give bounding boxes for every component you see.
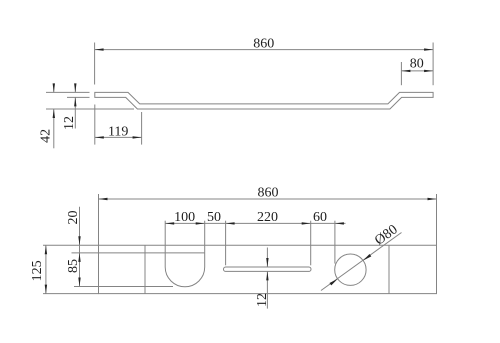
dimension 12 up arrow (top view) (74, 97, 76, 106)
dimension 220 right arrow (302, 222, 311, 224)
svg-text:12: 12 (255, 293, 270, 307)
dimension 860 (top view) right extension line (432, 43, 434, 86)
dimension 42 down arrow (53, 83, 55, 92)
svg-text:220: 220 (257, 210, 278, 225)
svg-text:Ø80: Ø80 (372, 222, 400, 248)
dimension 12 lower dim line segment (bottom view) (266, 271, 268, 308)
svg-text:100: 100 (174, 210, 195, 225)
dimension 860 (top view) left extension line (94, 43, 96, 85)
hole diameter lower arrow (330, 279, 338, 286)
svg-text:125: 125 (30, 260, 45, 281)
extension line at bar end underside (67, 96, 90, 98)
slot cutout (224, 267, 312, 271)
extension line at D-slot right (204, 221, 206, 253)
dimension 20 down arrow (78, 236, 80, 245)
dimension 80 (top view) left extension line (400, 62, 402, 85)
svg-text:860: 860 (258, 185, 279, 200)
dimension 12 upper dim line segment (top view) (74, 84, 76, 92)
end-tab bottom edge with extension (74, 286, 173, 288)
dimension 12 down arrow (bottom view) (266, 258, 268, 267)
extension line at slot right end (310, 221, 312, 266)
plate bottom edge extension (left) (43, 293, 99, 295)
dimension 80 (top view) right arrow (424, 70, 433, 72)
svg-text:20: 20 (66, 211, 81, 225)
svg-text:50: 50 (207, 210, 221, 225)
dimension 860 (top view) right arrow (424, 48, 433, 50)
hole diameter leader line (321, 233, 402, 291)
dimension 20 dim line (79, 207, 81, 287)
plate top edge extension (left) (43, 244, 99, 246)
plate outline (99, 245, 437, 293)
dimension 100 left arrow (165, 222, 174, 224)
hole diameter upper arrow (363, 254, 371, 261)
dimension 80 (top view) dim line (401, 70, 433, 72)
dimension 125 down arrow (45, 285, 47, 294)
dimension 220 left arrow (226, 222, 235, 224)
svg-text:119: 119 (108, 125, 128, 140)
hole diameter label (372, 222, 400, 248)
dimension 125 up arrow (45, 245, 47, 254)
dimension 12 up arrow (bottom view) (266, 271, 268, 280)
dimension 119 dim line (95, 136, 142, 138)
dimension 860 (top view) left arrow (95, 48, 104, 50)
dimension 860 (bottom view) right extension line (436, 194, 438, 245)
svg-text:85: 85 (66, 259, 81, 273)
extension line at bar bottom face (46, 108, 134, 110)
dimension 85 up arrow (78, 253, 80, 262)
right bend line (388, 245, 390, 293)
end-tab top edge with extension (72, 252, 205, 254)
dimension 80 (top view) left arrow (401, 70, 410, 72)
dimension 119 right extension line (141, 112, 143, 145)
svg-text:60: 60 (313, 210, 327, 225)
dimension 125 dim line (45, 245, 47, 293)
chained dimension row line (165, 222, 345, 224)
dimension 860 (top view) dim line (95, 49, 434, 51)
svg-text:42: 42 (39, 129, 54, 143)
extension line at bar top face (46, 91, 90, 93)
dimension 860 (bottom view) left extension line (98, 194, 100, 245)
dimension 42 up arrow (53, 109, 55, 118)
dimension 860 (bottom view) right arrow (428, 198, 437, 200)
dimension 12 lower dim line segment (top view) (74, 97, 76, 128)
dimension 860 (bottom view) dim line (99, 198, 437, 200)
dimension 100 right arrow (196, 222, 205, 224)
extension line at slot left end (225, 221, 227, 266)
dimension 85 down arrow (78, 278, 80, 287)
dimension 60 right arrow (335, 222, 344, 224)
extension line at D-slot left (164, 221, 166, 253)
D-shaped cutout (165, 253, 205, 287)
dimension 119 left arrow (95, 136, 104, 138)
dimension 119 left extension line (94, 105, 96, 145)
dimension 42 upper dim line segment (53, 84, 55, 92)
dimension 12 upper dim line segment (bottom view) (266, 248, 268, 268)
svg-text:860: 860 (253, 37, 274, 52)
left bend line (144, 245, 146, 293)
extension line at hole left edge (334, 221, 336, 264)
dimension 42 lower dim line segment (53, 109, 55, 148)
svg-text:80: 80 (410, 57, 424, 72)
dimension 12 down arrow (top view) (74, 83, 76, 92)
dimension 119 right arrow (133, 136, 142, 138)
hole circle (335, 254, 366, 285)
dimension 860 (bottom view) left arrow (99, 198, 108, 200)
bar side-profile outline (95, 92, 433, 109)
svg-text:12: 12 (62, 116, 77, 130)
